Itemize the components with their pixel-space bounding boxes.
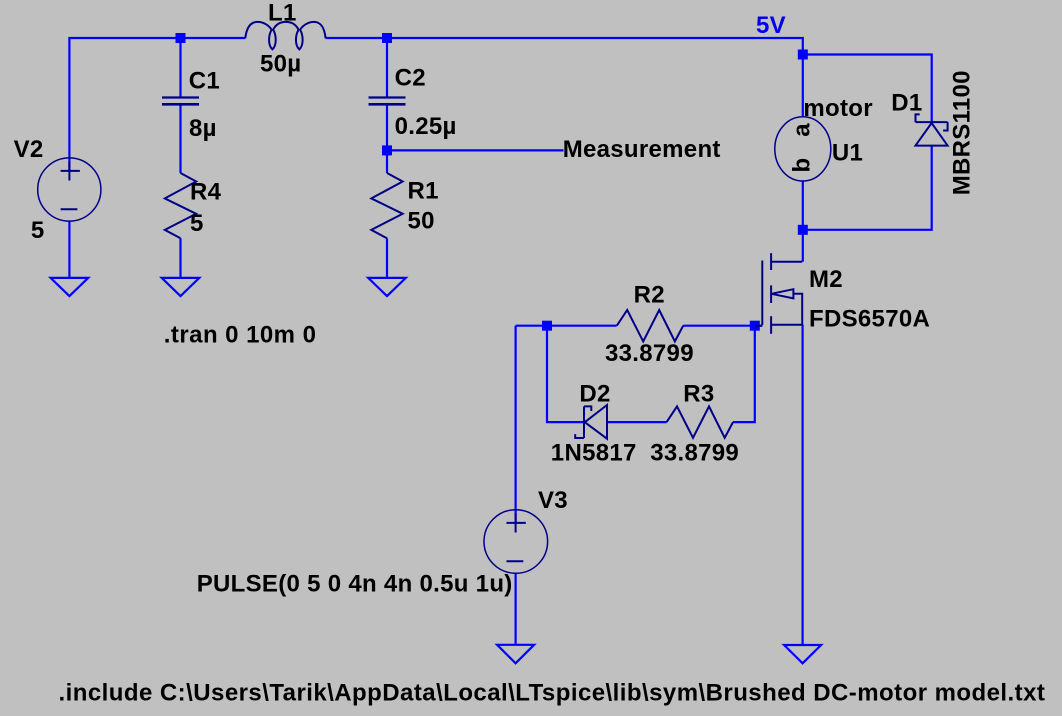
- svg-text:0.25µ: 0.25µ: [395, 113, 457, 140]
- svg-text:D2: D2: [579, 381, 610, 408]
- svg-text:MBRS1100: MBRS1100: [949, 70, 976, 195]
- svg-text:a: a: [788, 123, 815, 137]
- svg-text:R3: R3: [683, 381, 714, 408]
- svg-text:33.8799: 33.8799: [650, 440, 739, 467]
- svg-text:C2: C2: [395, 65, 426, 92]
- svg-text:R1: R1: [408, 178, 439, 205]
- svg-text:M2: M2: [809, 266, 843, 293]
- svg-text:PULSE(0 5 0 4n 4n 0.5u 1u): PULSE(0 5 0 4n 4n 0.5u 1u): [197, 571, 513, 598]
- svg-text:.include C:\Users\Tarik\AppDat: .include C:\Users\Tarik\AppData\Local\LT…: [59, 680, 1046, 707]
- svg-text:b: b: [789, 158, 816, 173]
- svg-text:motor: motor: [803, 95, 873, 122]
- svg-text:50µ: 50µ: [260, 51, 301, 78]
- svg-text:V2: V2: [14, 136, 44, 163]
- svg-text:R4: R4: [190, 179, 222, 206]
- svg-text:L1: L1: [268, 0, 297, 27]
- svg-text:33.8799: 33.8799: [605, 340, 694, 367]
- svg-text:1N5817: 1N5817: [551, 440, 637, 467]
- svg-text:.tran 0 10m 0: .tran 0 10m 0: [164, 322, 317, 349]
- svg-text:5: 5: [31, 217, 45, 244]
- svg-text:R2: R2: [634, 282, 665, 309]
- svg-text:FDS6570A: FDS6570A: [809, 306, 930, 333]
- svg-text:U1: U1: [832, 140, 863, 167]
- svg-text:5V: 5V: [756, 12, 786, 39]
- svg-text:8µ: 8µ: [189, 115, 217, 142]
- svg-text:C1: C1: [189, 68, 220, 95]
- svg-text:V3: V3: [538, 487, 568, 514]
- svg-text:D1: D1: [891, 90, 922, 117]
- svg-text:5: 5: [190, 210, 204, 237]
- svg-text:50: 50: [408, 208, 435, 235]
- svg-text:Measurement: Measurement: [563, 136, 721, 163]
